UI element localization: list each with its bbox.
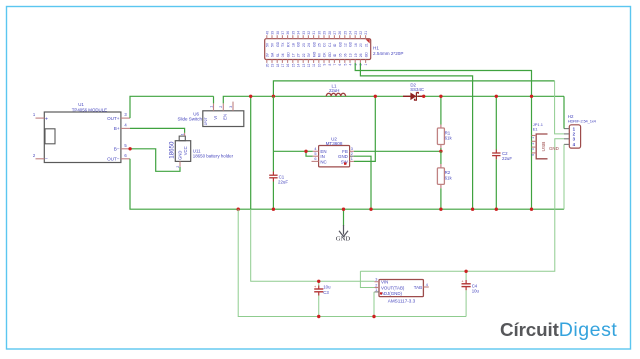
svg-text:1: 1	[364, 63, 368, 65]
svg-text:1: 1	[351, 157, 353, 161]
svg-text:C0: C0	[323, 43, 327, 47]
svg-text:22: 22	[359, 31, 363, 35]
header H1 2.54mm 2*20P	[265, 31, 404, 68]
svg-text:7: 7	[333, 63, 337, 65]
junction C3 top	[317, 280, 320, 283]
svg-text:1: 1	[180, 133, 184, 135]
svg-text:SA: SA	[271, 52, 275, 57]
svg-text:21: 21	[364, 31, 368, 35]
diode D2 SS34C	[403, 83, 424, 101]
svg-text:34: 34	[297, 31, 301, 35]
wire H2 pin4 to ground rail	[563, 144, 565, 209]
wire B- to battery GND	[130, 149, 180, 172]
svg-text:30: 30	[317, 31, 321, 35]
svg-text:1P2T: 1P2T	[204, 117, 208, 125]
svg-text:3V: 3V	[307, 52, 311, 57]
wire ADJ to gnd line	[373, 292, 375, 317]
wire U2 GND down	[354, 156, 371, 209]
header H2 HDR/F-2.54_1x4	[564, 114, 597, 148]
svg-text:GD: GD	[276, 41, 280, 47]
capacitor C3 10u	[314, 281, 331, 316]
svg-text:2: 2	[176, 166, 180, 168]
junction R2 bottom	[439, 208, 442, 211]
svg-text:2: 2	[531, 143, 535, 145]
svg-text:31: 31	[312, 31, 316, 35]
svg-text:12: 12	[307, 63, 311, 67]
svg-text:5V: 5V	[266, 42, 270, 47]
wire C1 node down	[272, 96, 274, 171]
svg-text:3: 3	[531, 148, 535, 150]
svg-text:37: 37	[281, 31, 285, 35]
junction EN-IN	[304, 150, 307, 153]
svg-text:23: 23	[302, 43, 306, 47]
svg-text:TP4056 MODULE: TP4056 MODULE	[72, 107, 107, 112]
svg-text:C1: C1	[328, 43, 332, 47]
svg-text:TX: TX	[281, 42, 285, 47]
wire VOUT loop	[360, 271, 374, 287]
svg-text:21: 21	[364, 43, 368, 47]
svg-text:12: 12	[344, 43, 348, 47]
svg-text:17: 17	[281, 63, 285, 67]
svg-text:R2: R2	[445, 170, 451, 175]
svg-text:HDR/F-2.54_1x4: HDR/F-2.54_1x4	[568, 118, 597, 123]
svg-text:MT3608: MT3608	[326, 141, 343, 146]
svg-text:GND: GND	[336, 235, 351, 242]
junction ground stem	[342, 208, 345, 211]
svg-text:3: 3	[229, 106, 233, 108]
svg-text:25: 25	[343, 31, 347, 35]
svg-text:20: 20	[265, 63, 269, 67]
svg-text:14: 14	[297, 63, 301, 67]
svg-text:19: 19	[354, 53, 358, 57]
svg-text:2: 2	[219, 106, 223, 108]
svg-text:B−: B−	[114, 147, 120, 152]
svg-text:32: 32	[307, 31, 311, 35]
svg-text:MI: MI	[318, 53, 322, 57]
svg-text:GD: GD	[297, 41, 301, 47]
svg-text:18650: 18650	[168, 141, 175, 159]
svg-text:18650 battery holder: 18650 battery holder	[193, 153, 234, 158]
junction JP1 column on ground rail	[530, 208, 533, 211]
wire C1 to ground rail	[272, 182, 274, 210]
wire battery VIN down to AMS1117 input	[250, 96, 252, 209]
IC U2 MT3608	[312, 137, 354, 167]
junction C1 ground	[272, 208, 275, 211]
svg-text:18: 18	[276, 63, 280, 67]
junction gnd column	[471, 208, 474, 211]
svg-text:13: 13	[302, 63, 306, 67]
wire switch pin1	[213, 96, 215, 103]
svg-text:8: 8	[328, 63, 332, 65]
svg-text:27: 27	[333, 31, 337, 35]
svg-text:9: 9	[323, 63, 327, 65]
svg-text:4: 4	[426, 283, 428, 287]
svg-text:5: 5	[343, 63, 347, 65]
svg-text:SS34C: SS34C	[410, 87, 424, 92]
svg-text:13: 13	[349, 53, 353, 57]
junction C3 bottom	[317, 315, 320, 318]
svg-text:61k: 61k	[445, 176, 453, 181]
resistor R1 61k	[437, 96, 452, 151]
svg-text:RX: RX	[286, 42, 290, 47]
inductor L1 22uH	[326, 84, 345, 97]
svg-text:GND: GND	[178, 151, 183, 160]
wire VIN branch up-over to H2 pin2	[273, 81, 554, 96]
svg-text:1: 1	[531, 137, 535, 139]
svg-text:24: 24	[349, 31, 353, 35]
svg-text:22uF: 22uF	[502, 156, 512, 161]
svg-text:R1: R1	[445, 130, 451, 135]
svg-text:10: 10	[317, 63, 321, 67]
junction SW node	[374, 95, 377, 98]
svg-text:04: 04	[281, 53, 285, 57]
svg-text:3: 3	[351, 147, 353, 151]
svg-text:−: −	[45, 157, 48, 163]
wire EN-IN tie	[306, 151, 313, 156]
svg-text:U6: U6	[193, 111, 199, 116]
svg-text:19: 19	[271, 63, 275, 67]
switch U6 Slide Switch	[177, 102, 243, 127]
svg-text:CírcuitDigest: CírcuitDigest	[500, 319, 617, 341]
wire SW to L1/D2 node	[354, 96, 375, 161]
regulator AMS1117-3.3	[375, 278, 429, 304]
wire OUT- down to ground rail	[130, 159, 564, 209]
svg-text:11: 11	[312, 63, 316, 67]
wire EN/IN feed	[273, 150, 312, 152]
svg-text:2: 2	[375, 283, 377, 287]
svg-text:GD: GD	[349, 41, 353, 47]
svg-text:VI: VI	[213, 116, 218, 120]
svg-text:4: 4	[531, 154, 535, 156]
capacitor C4 10u	[461, 271, 479, 316]
svg-text:ADJ(GND): ADJ(GND)	[381, 291, 403, 296]
svg-text:15: 15	[291, 63, 295, 67]
svg-text:EN: EN	[223, 114, 228, 120]
svg-text:OUT−: OUT−	[107, 157, 120, 162]
svg-text:18: 18	[292, 43, 296, 47]
svg-text:26: 26	[359, 53, 363, 57]
svg-text:1: 1	[209, 106, 213, 108]
junction D2 cathode	[422, 95, 425, 98]
svg-text:VOUT(TAB): VOUT(TAB)	[381, 285, 405, 290]
svg-text:NC: NC	[320, 159, 326, 164]
connector JP1.1 USB	[531, 122, 559, 159]
wire FB to divider	[354, 150, 441, 152]
wire rail to H2 pin1	[563, 96, 565, 128]
svg-text:6: 6	[338, 63, 342, 65]
svg-text:E1: E1	[533, 126, 539, 131]
junction C4 top	[464, 270, 467, 273]
svg-text:40: 40	[265, 31, 269, 35]
svg-text:OUT+: OUT+	[107, 116, 120, 121]
svg-text:ID: ID	[333, 43, 337, 47]
module U1 TP4056 MODULE	[33, 102, 130, 162]
svg-text:B+: B+	[114, 126, 120, 131]
svg-text:35: 35	[291, 31, 295, 35]
wire lower 3.3V output line	[360, 139, 564, 271]
svg-text:GD: GD	[286, 52, 290, 58]
svg-text:2: 2	[351, 152, 353, 156]
svg-text:GD: GD	[338, 41, 342, 47]
svg-text:3: 3	[375, 278, 377, 282]
svg-text:10u: 10u	[472, 289, 480, 294]
svg-text:MO: MO	[312, 51, 316, 57]
svg-text:4: 4	[314, 147, 316, 151]
capacitor C1 22uF	[269, 172, 288, 185]
junction C2 bottom	[495, 208, 498, 211]
wire OUT+ up to rail	[130, 96, 214, 118]
wire H1 pin to gnd column	[360, 63, 472, 209]
svg-text:28: 28	[328, 31, 332, 35]
svg-text:5V: 5V	[271, 42, 275, 47]
junction JP1 column on rail	[530, 95, 533, 98]
svg-text:4: 4	[349, 63, 353, 65]
svg-text:61k: 61k	[445, 136, 453, 141]
wire H1 pin to 5V column	[355, 63, 531, 209]
svg-text:ID: ID	[333, 53, 337, 57]
svg-text:CK: CK	[323, 52, 327, 57]
svg-text:2.54mm 2*20P: 2.54mm 2*20P	[373, 51, 403, 56]
svg-text:Slide Switch: Slide Switch	[177, 117, 202, 122]
junction ground rail C3 branch	[237, 208, 240, 211]
svg-text:20: 20	[359, 43, 363, 47]
svg-text:5: 5	[314, 152, 316, 156]
svg-text:39: 39	[271, 31, 275, 35]
resistor R2 61k	[437, 151, 452, 209]
svg-text:SL: SL	[276, 53, 280, 57]
svg-text:38: 38	[276, 31, 280, 35]
svg-text:33: 33	[302, 31, 306, 35]
wire B+ to battery VCC	[130, 128, 185, 133]
svg-text:USB: USB	[541, 142, 547, 152]
wire switch pin2 to rail	[223, 96, 564, 103]
svg-text:16: 16	[286, 63, 290, 67]
junction B-	[128, 147, 131, 150]
svg-text:3V: 3V	[266, 52, 270, 57]
svg-text:23: 23	[354, 31, 358, 35]
svg-text:06: 06	[344, 53, 348, 57]
svg-text:36: 36	[286, 31, 290, 35]
svg-text:17: 17	[292, 53, 296, 57]
svg-text:GD: GD	[312, 41, 316, 47]
svg-text:24: 24	[307, 43, 311, 47]
svg-text:VIN: VIN	[381, 280, 388, 285]
svg-text:29: 29	[323, 31, 327, 35]
junction U2 gnd	[369, 208, 372, 211]
svg-text:27: 27	[297, 53, 301, 57]
svg-text:VCC: VCC	[183, 146, 188, 155]
junction battery rail	[249, 95, 252, 98]
svg-text:16: 16	[354, 43, 358, 47]
svg-text:AMS1117-3.3: AMS1117-3.3	[388, 298, 416, 303]
ground GND	[336, 209, 351, 242]
svg-text:+: +	[45, 116, 48, 122]
svg-text:GD: GD	[364, 52, 368, 58]
svg-text:GND: GND	[549, 146, 559, 151]
capacitor C2 22uF	[492, 96, 512, 209]
battery holder U11 18650	[168, 133, 233, 168]
junction R1 top	[439, 95, 442, 98]
svg-text:05: 05	[338, 53, 342, 57]
svg-text:22uF: 22uF	[278, 180, 288, 185]
svg-text:22uH: 22uH	[329, 88, 340, 93]
svg-text:25: 25	[318, 43, 322, 47]
svg-text:22: 22	[302, 53, 306, 57]
svg-text:C3: C3	[323, 290, 329, 295]
wire ground to lower gnd line	[238, 209, 466, 316]
junction VIN node	[272, 95, 275, 98]
junction FB node	[439, 150, 442, 153]
svg-text:TAB: TAB	[414, 285, 422, 290]
svg-text:26: 26	[338, 31, 342, 35]
svg-text:6: 6	[314, 157, 316, 161]
svg-text:GD: GD	[328, 52, 332, 58]
svg-text:1: 1	[375, 288, 377, 292]
junction C2 top	[495, 95, 498, 98]
junction ADJ gnd	[372, 315, 375, 318]
